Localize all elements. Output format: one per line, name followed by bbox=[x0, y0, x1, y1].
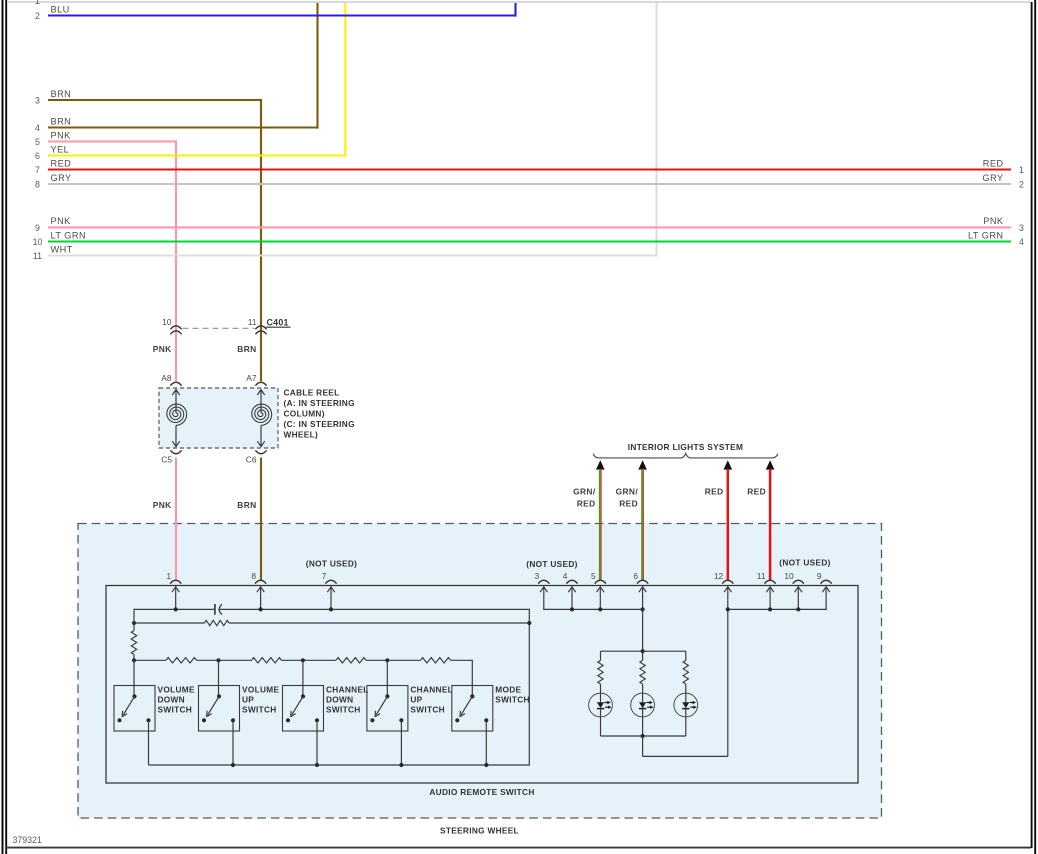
pin 7 entry arrow bbox=[327, 587, 334, 592]
wire bus1 right corner down bbox=[528, 609, 530, 766]
svg-text:9: 9 bbox=[817, 571, 822, 581]
wire bus3 segment 1 bbox=[134, 659, 166, 661]
pin 3 connector (audio remote switch) bbox=[538, 580, 549, 583]
switch S4 CHANNEL UP SWITCH bbox=[367, 686, 408, 732]
svg-text:BLU: BLU bbox=[51, 4, 70, 14]
wire bus2 (resistor row) bbox=[134, 622, 205, 624]
svg-text:RED: RED bbox=[747, 487, 766, 497]
wire bus3 to switch CHANNEL UP SWITCH bbox=[386, 661, 388, 697]
svg-text:PNK: PNK bbox=[153, 344, 172, 354]
svg-text:11: 11 bbox=[33, 251, 42, 261]
page border left outer bbox=[2, 0, 4, 854]
svg-text:A8: A8 bbox=[161, 373, 172, 383]
svg-text:(NOT USED): (NOT USED) bbox=[779, 557, 830, 567]
wire LED cathode bus bbox=[601, 735, 686, 737]
pin 6 connector (audio remote switch) bbox=[637, 580, 648, 583]
junction S5/common bbox=[484, 763, 488, 767]
wire BRN (C401 to cable reel A7) bbox=[260, 334, 262, 381]
junction pin8/bus1 bbox=[259, 607, 263, 611]
wire pin 10 stem bbox=[797, 587, 799, 610]
wire GRN/RED (interior lights to pin 6) bbox=[638, 460, 647, 469]
wire switch S1 output bbox=[148, 720, 150, 765]
pin 9 entry arrow bbox=[822, 587, 829, 592]
pin C5 (cable reel) bbox=[170, 450, 181, 453]
junction S3/common bbox=[315, 763, 319, 767]
wire bus3 to switch VOLUME UP SWITCH bbox=[218, 661, 220, 697]
svg-text:1: 1 bbox=[35, 0, 40, 6]
pin A8 (cable reel) bbox=[170, 382, 181, 385]
svg-text:PNK: PNK bbox=[51, 216, 72, 226]
wire GRN/RED (interior lights to pin 5) bbox=[596, 460, 605, 469]
svg-text:BRN: BRN bbox=[237, 500, 256, 510]
svg-text:RED: RED bbox=[705, 487, 724, 497]
junction S2/common bbox=[231, 763, 235, 767]
pin 5 entry arrow bbox=[597, 587, 604, 592]
cable reel coil A7-C6 bbox=[257, 390, 264, 395]
svg-text:1: 1 bbox=[166, 571, 171, 581]
svg-text:11: 11 bbox=[757, 571, 766, 581]
junction pin4/bus bbox=[570, 607, 574, 611]
junction bus3 node 3 bbox=[301, 658, 305, 662]
pin 3 entry arrow bbox=[540, 587, 547, 592]
junction bus3 node 4 bbox=[385, 658, 389, 662]
junction bus2 left bbox=[132, 621, 136, 625]
svg-text:CHANNEL: CHANNEL bbox=[410, 684, 453, 694]
switch S5 MODE SWITCH bbox=[452, 686, 493, 732]
junction pin1/bus1 bbox=[174, 607, 178, 611]
svg-text:5: 5 bbox=[591, 571, 596, 581]
wire BRN (cable reel C6 to pin 8) bbox=[260, 458, 262, 581]
pin C6 (cable reel) bbox=[255, 450, 266, 453]
svg-text:(NOT USED): (NOT USED) bbox=[526, 559, 577, 569]
wire LT GRN circuit 10 bbox=[48, 240, 1011, 242]
wire PNK (C401 to cable reel A8) bbox=[175, 334, 177, 381]
wire RED (interior lights to pin 12) bbox=[724, 460, 733, 469]
wire bus3 segment 4 bbox=[387, 659, 420, 661]
wire pin6 to LED anode bus bbox=[642, 609, 644, 651]
connector C401 pin 10 bbox=[170, 326, 181, 329]
wire pin 3 stem bbox=[543, 587, 545, 610]
svg-text:UP: UP bbox=[242, 694, 254, 704]
svg-text:C6: C6 bbox=[246, 455, 257, 465]
svg-text:COLUMN): COLUMN) bbox=[284, 409, 325, 419]
svg-text:BRN: BRN bbox=[51, 89, 72, 99]
svg-text:WHT: WHT bbox=[51, 244, 73, 254]
junction S4/common bbox=[399, 763, 403, 767]
svg-text:RED: RED bbox=[577, 499, 596, 509]
page border bottom rule bbox=[6, 847, 1031, 849]
junction pin11/bus bbox=[768, 607, 772, 611]
svg-text:GRN/: GRN/ bbox=[616, 487, 639, 497]
svg-text:UP: UP bbox=[410, 694, 422, 704]
junction LED cathode center bbox=[641, 734, 645, 738]
svg-text:7: 7 bbox=[322, 571, 327, 581]
steering wheel box bbox=[78, 524, 882, 819]
cable reel box bbox=[159, 388, 278, 448]
wire switch S4 output bbox=[400, 720, 402, 765]
svg-text:BRN: BRN bbox=[51, 116, 72, 126]
svg-text:YEL: YEL bbox=[51, 144, 70, 154]
svg-text:VOLUME: VOLUME bbox=[158, 684, 195, 694]
svg-text:MODE: MODE bbox=[495, 684, 521, 694]
svg-text:GRY: GRY bbox=[982, 173, 1003, 183]
svg-text:(C: IN STEERING: (C: IN STEERING bbox=[284, 419, 355, 429]
resistor R2 (vertical) bbox=[131, 631, 136, 655]
wire LED return bbox=[642, 736, 644, 756]
wire BRN circuit 4 bbox=[48, 126, 318, 128]
svg-text:1: 1 bbox=[1019, 165, 1024, 175]
svg-text:CABLE REEL: CABLE REEL bbox=[284, 388, 340, 398]
pin 12 connector (audio remote switch) bbox=[722, 580, 733, 583]
pin 8 entry arrow bbox=[257, 587, 264, 592]
pin 5 connector (audio remote switch) bbox=[595, 580, 606, 583]
junction pin7/bus1 bbox=[329, 607, 333, 611]
svg-text:A7: A7 bbox=[246, 373, 257, 383]
svg-text:3: 3 bbox=[35, 96, 40, 106]
svg-text:LT GRN: LT GRN bbox=[968, 230, 1004, 240]
wire RED (interior lights to pin 11) bbox=[766, 460, 775, 469]
svg-text:PNK: PNK bbox=[153, 500, 172, 510]
wire left rail x134 bbox=[133, 609, 135, 631]
switch S2 VOLUME UP SWITCH bbox=[199, 686, 240, 732]
pin A7 (cable reel) bbox=[255, 382, 266, 385]
svg-text:C5: C5 bbox=[161, 455, 172, 465]
svg-text:CHANNEL: CHANNEL bbox=[326, 684, 369, 694]
svg-text:INTERIOR LIGHTS SYSTEM: INTERIOR LIGHTS SYSTEM bbox=[628, 442, 743, 452]
svg-text:RED: RED bbox=[51, 158, 72, 168]
junction pin6/bus bbox=[641, 607, 645, 611]
wire switch common bus bbox=[149, 764, 530, 766]
wire pin 12 stem bbox=[727, 587, 729, 610]
audio remote switch box U1 bbox=[106, 586, 858, 784]
svg-text:SWITCH: SWITCH bbox=[158, 704, 193, 714]
pin 1 connector (audio remote switch) bbox=[170, 580, 181, 583]
svg-text:9: 9 bbox=[35, 223, 40, 233]
wire switch S5 output bbox=[485, 720, 487, 765]
page border right inner bbox=[1031, 2, 1033, 848]
junction left rail/bus3 bbox=[132, 658, 136, 662]
junction pin10/bus bbox=[796, 607, 800, 611]
wire bus3 segment 3 bbox=[303, 659, 336, 661]
svg-text:5: 5 bbox=[35, 137, 40, 147]
svg-text:4: 4 bbox=[1019, 237, 1024, 247]
wire bus3 segment 2 bbox=[219, 659, 252, 661]
pin 6 entry arrow bbox=[639, 587, 646, 592]
svg-text:STEERING WHEEL: STEERING WHEEL bbox=[440, 826, 519, 836]
svg-text:12: 12 bbox=[714, 571, 724, 581]
svg-text:11: 11 bbox=[248, 317, 257, 327]
svg-text:SWITCH: SWITCH bbox=[326, 704, 361, 714]
svg-text:SWITCH: SWITCH bbox=[495, 694, 530, 704]
wire GRY circuit 8 bbox=[48, 183, 1011, 185]
svg-text:4: 4 bbox=[563, 571, 568, 581]
page border right outer bbox=[1034, 0, 1036, 854]
svg-text:8: 8 bbox=[35, 180, 40, 190]
junction pin5/bus bbox=[598, 607, 602, 611]
wire pin 6 stem bbox=[642, 587, 644, 610]
pin 12 entry arrow bbox=[724, 587, 731, 592]
LED D1 with resistor bbox=[600, 651, 602, 660]
page border left inner bbox=[5, 0, 7, 854]
resistor R5 bbox=[336, 658, 366, 663]
LED D3 with resistor bbox=[685, 651, 687, 660]
wire WHT circuit 11 bbox=[48, 254, 657, 256]
wire bus pins 12-9 bbox=[728, 608, 827, 610]
wire pin 4 stem bbox=[571, 587, 573, 610]
resistor R3 bbox=[166, 658, 197, 663]
svg-text:SWITCH: SWITCH bbox=[410, 704, 445, 714]
svg-text:GRY: GRY bbox=[51, 173, 72, 183]
pin 9 connector (audio remote switch) bbox=[821, 580, 832, 583]
junction LED anode bus center bbox=[641, 649, 645, 653]
svg-text:SWITCH: SWITCH bbox=[242, 704, 277, 714]
wire bus3 to switch VOLUME DOWN SWITCH bbox=[133, 661, 135, 697]
svg-text:7: 7 bbox=[35, 165, 40, 175]
connector C401 pin 11 bbox=[255, 326, 266, 329]
cable reel coil A8-C5 bbox=[172, 390, 179, 395]
wire bus3 to switch CHANNEL DOWN SWITCH bbox=[302, 661, 304, 697]
wire switch S3 output bbox=[316, 720, 318, 765]
wire YEL circuit 6 bbox=[48, 154, 345, 156]
svg-text:6: 6 bbox=[35, 151, 40, 161]
brace interior lights bbox=[593, 453, 778, 458]
junction bus2 right bbox=[527, 621, 531, 625]
capacitor C1 bbox=[214, 604, 216, 615]
pin 10 connector (audio remote switch) bbox=[793, 580, 804, 583]
svg-text:10: 10 bbox=[784, 571, 794, 581]
pin 11 entry arrow bbox=[766, 587, 773, 592]
svg-text:RED: RED bbox=[619, 499, 638, 509]
svg-text:6: 6 bbox=[633, 571, 638, 581]
wire bus3 to switch MODE SWITCH bbox=[471, 660, 473, 697]
svg-text:10: 10 bbox=[162, 317, 172, 327]
wire PNK (cable reel C5 to pin 1) bbox=[175, 458, 177, 581]
wire PNK circuit 9 bbox=[48, 226, 1011, 228]
svg-text:WHEEL): WHEEL) bbox=[284, 430, 319, 440]
pin 1 entry arrow bbox=[172, 587, 179, 592]
wire bus pins 3-6 bbox=[543, 608, 642, 610]
wire pin 1 stem bbox=[175, 587, 177, 610]
connector C401 dashed link bbox=[183, 327, 255, 329]
resistor R6 bbox=[421, 658, 451, 663]
switch S1 VOLUME DOWN SWITCH bbox=[114, 686, 155, 732]
pin 4 entry arrow bbox=[568, 587, 575, 592]
svg-text:AUDIO REMOTE SWITCH: AUDIO REMOTE SWITCH bbox=[429, 787, 534, 797]
svg-text:C401: C401 bbox=[267, 317, 289, 327]
svg-text:3: 3 bbox=[535, 571, 540, 581]
svg-text:2: 2 bbox=[1019, 180, 1024, 190]
wire BRN circuit 3 (to C401 pin 11) bbox=[48, 99, 261, 101]
svg-text:BRN: BRN bbox=[237, 344, 256, 354]
pin 8 connector (audio remote switch) bbox=[255, 580, 266, 583]
junction bus3 node 2 bbox=[216, 658, 220, 662]
svg-text:GRN/: GRN/ bbox=[573, 487, 596, 497]
page border top rule bbox=[8, 1, 1031, 3]
svg-text:4: 4 bbox=[35, 123, 40, 133]
wire bus1 left segment (pins 1,8,7 with capacitor) bbox=[134, 608, 214, 610]
svg-text:PNK: PNK bbox=[51, 130, 72, 140]
wire RED circuit 7 bbox=[48, 168, 1011, 170]
svg-text:PNK: PNK bbox=[983, 216, 1004, 226]
svg-text:10: 10 bbox=[33, 237, 43, 247]
wire switch S2 output bbox=[232, 720, 234, 765]
wire PNK circuit 5 (to C401 pin 10) bbox=[48, 140, 176, 142]
wire pin 7 stem bbox=[330, 587, 332, 610]
pin 4 connector (audio remote switch) bbox=[566, 580, 577, 583]
svg-text:VOLUME: VOLUME bbox=[242, 684, 279, 694]
pin 7 connector (audio remote switch) bbox=[325, 580, 336, 583]
svg-text:(A: IN STEERING: (A: IN STEERING bbox=[284, 398, 355, 408]
svg-text:DOWN: DOWN bbox=[326, 694, 353, 704]
svg-text:(NOT USED): (NOT USED) bbox=[306, 558, 357, 568]
wire pin 5 stem bbox=[599, 587, 601, 610]
switch S3 CHANNEL DOWN SWITCH bbox=[283, 686, 324, 732]
resistor R1 bbox=[205, 620, 230, 625]
svg-text:DOWN: DOWN bbox=[158, 694, 185, 704]
svg-text:8: 8 bbox=[251, 571, 256, 581]
wire pin 8 stem bbox=[260, 587, 262, 610]
wire BLU circuit 2 bbox=[48, 14, 516, 16]
wire LED anode bus bbox=[601, 650, 686, 652]
pin 10 entry arrow bbox=[795, 587, 802, 592]
wire pin 9 stem bbox=[825, 587, 827, 610]
svg-text:2: 2 bbox=[35, 11, 40, 21]
svg-text:379321: 379321 bbox=[13, 835, 42, 845]
wire pin 11 stem bbox=[769, 587, 771, 610]
svg-text:LT GRN: LT GRN bbox=[51, 230, 87, 240]
svg-text:RED: RED bbox=[983, 158, 1004, 168]
svg-text:3: 3 bbox=[1019, 223, 1024, 233]
resistor R4 bbox=[252, 658, 282, 663]
LED D2 with resistor bbox=[642, 651, 644, 660]
junction pin12/bus bbox=[726, 607, 730, 611]
pin 11 connector (audio remote switch) bbox=[765, 580, 776, 583]
